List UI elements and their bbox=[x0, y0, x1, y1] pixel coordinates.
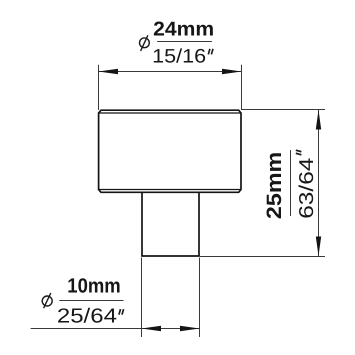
dim 25mm arrow top bbox=[316, 110, 321, 130]
svg-text:10mm: 10mm bbox=[67, 275, 120, 298]
dim 25mm dimension line bbox=[318, 110, 320, 256]
diameter symbol top bbox=[140, 35, 150, 51]
dim 25mm extension line bottom bbox=[200, 256, 325, 258]
inch mark top bbox=[208, 49, 213, 55]
dim 24mm extension line right bbox=[241, 65, 243, 110]
fraction bar right (rotated) bbox=[290, 150, 292, 216]
knob head bottom chamfer line bbox=[99, 189, 241, 191]
dim 25mm arrow bottom bbox=[316, 237, 321, 257]
dim 10mm dimension line bbox=[31, 328, 200, 330]
diameter symbol bottom bbox=[42, 293, 52, 308]
svg-text:63/64: 63/64 bbox=[296, 158, 318, 219]
dim 25mm extension line top bbox=[242, 109, 325, 111]
svg-text:24mm: 24mm bbox=[153, 18, 214, 40]
dim 24mm dimension line bbox=[99, 71, 242, 73]
stem right edge bbox=[198, 192, 200, 256]
knob head body outline bbox=[99, 110, 241, 192]
stem left edge bbox=[141, 192, 143, 256]
inch mark bottom bbox=[119, 309, 124, 315]
dim 24mm arrow right bbox=[222, 69, 242, 74]
knob head top chamfer line bbox=[99, 112, 241, 114]
inch mark right (rotated) bbox=[296, 150, 302, 155]
fraction bar bottom bbox=[59, 300, 123, 302]
dim 24mm extension line left bbox=[98, 65, 100, 110]
stem bottom edge bbox=[141, 255, 200, 257]
dim 10mm extension line left bbox=[141, 258, 143, 338]
dim 10mm arrow left bbox=[142, 326, 162, 331]
dim 24mm arrow left bbox=[99, 69, 119, 74]
svg-text:25/64: 25/64 bbox=[57, 306, 117, 328]
dim 10mm extension line right bbox=[199, 258, 201, 338]
dim 10mm arrow right bbox=[180, 326, 200, 331]
svg-text:15/16: 15/16 bbox=[152, 46, 206, 68]
fraction bar top bbox=[157, 41, 212, 43]
svg-text:25mm: 25mm bbox=[263, 152, 286, 219]
